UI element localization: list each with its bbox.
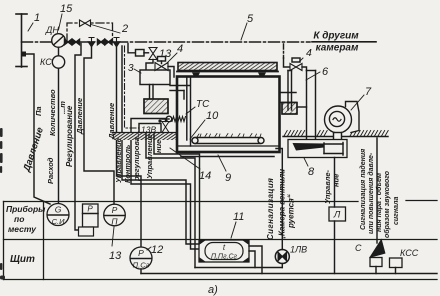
ejector box 8 (288, 140, 347, 158)
valve pair on main line (right) (98, 39, 113, 44)
wire: regulation line x=75 (75, 44, 81, 231)
valve 4 (left, with actuator) (155, 57, 168, 71)
svg-text:Р: Р (112, 205, 118, 215)
svg-text:КС: КС (40, 57, 52, 67)
chamber bottom slab (181, 156, 274, 158)
wire: pressure line to Р/П (84, 46, 114, 204)
siren С (355, 239, 386, 267)
svg-text:Щит: Щит (10, 254, 35, 265)
table frame (4, 201, 438, 280)
instrument Р (recorder block) (79, 204, 99, 236)
svg-text:Расход: Расход (46, 157, 55, 184)
svg-text:П: П (111, 217, 118, 227)
svg-text:Па: Па (34, 106, 43, 116)
wire: monitoring line to recorder (131, 119, 198, 250)
perforated steam pipe 10 (192, 134, 264, 144)
svg-text:Контроль: Контроль (123, 144, 132, 183)
label 4 (left) (167, 43, 183, 63)
svg-text:Сигнализация падения: Сигнализация падения (359, 149, 367, 230)
wire: КС down to G instrument (58, 68, 60, 203)
svg-text:или повышения давле-: или повышения давле- (367, 152, 375, 234)
pipe header 1 (steam supply riser end) (16, 14, 27, 67)
chamber lid (hatched) (177, 63, 278, 72)
svg-text:П,Пг,Сг: П,Пг,Сг (211, 254, 238, 261)
label 9 (218, 155, 231, 184)
label К другим камерам (313, 31, 359, 54)
svg-text:12: 12 (151, 244, 163, 256)
svg-text:Управление: Управление (145, 134, 154, 179)
bypass valve (80, 20, 91, 26)
svg-text:8: 8 (308, 166, 315, 178)
svg-text:ДН: ДН (45, 25, 59, 35)
lid clamp left (192, 73, 200, 77)
svg-text:регулирова...: регулирова... (132, 131, 141, 182)
seal pot left (water filled) (144, 99, 168, 114)
label 14 (170, 148, 211, 182)
label 12 (147, 244, 163, 256)
svg-text:Количество: Количество (48, 89, 57, 136)
impulse pipe chamber to seal pot (170, 86, 190, 100)
label 5 (241, 13, 254, 40)
svg-text:Л: Л (333, 210, 341, 221)
svg-text:образом звукового: образом звукового (383, 170, 391, 238)
wire: header tap to G instrument (22, 52, 51, 205)
starter Л (329, 207, 346, 221)
temperature sensor ТС coil (166, 116, 185, 122)
bottom signal bus (141, 273, 437, 275)
rotated label Управле-ние right (323, 170, 341, 204)
steaming chamber 9 (outer shell) (177, 77, 280, 153)
svg-text:ния пара . объем: ния пара . объем (375, 172, 383, 232)
table row labels (6, 204, 46, 265)
svg-text:Давление: Давление (107, 103, 116, 140)
svg-text:G: G (55, 205, 62, 215)
page-edge artifact marks (cut text at scan margin) (0, 128, 5, 280)
rotated labels right: Сигнализация падения (359, 149, 400, 238)
transmitter КС (40, 47, 65, 68)
wire ejector to siren (376, 138, 377, 274)
svg-text:а): а) (208, 284, 218, 296)
svg-text:3: 3 (128, 63, 134, 74)
label 8 (304, 158, 315, 178)
svg-text:10: 10 (206, 110, 219, 122)
svg-text:1: 1 (34, 12, 40, 24)
svg-text:Сигнализация: Сигнализация (266, 178, 275, 240)
svg-text:4: 4 (306, 47, 312, 59)
svg-text:11: 11 (233, 211, 244, 223)
svg-text:по: по (14, 214, 24, 224)
condensate pot 3 (128, 63, 170, 85)
svg-text:6: 6 (322, 66, 329, 78)
wires from 13В down to recorder (146, 134, 195, 268)
svg-text:7: 7 (365, 86, 372, 98)
label 11 (231, 211, 244, 238)
label 10 (190, 110, 219, 139)
pipe from valve 13 down to pot 3 (146, 60, 153, 71)
svg-text:К другим: К другим (313, 31, 359, 42)
ground hatch under 13В (112, 133, 176, 141)
svg-text:4: 4 (177, 43, 183, 55)
vent standpipe to ejector (297, 67, 316, 140)
bypass line 2 (67, 23, 113, 42)
svg-text:„Камера вентили-: „Камера вентили- (278, 166, 287, 241)
right wall stub pipe to seal pot (280, 93, 296, 103)
pipe valve4 to chamber top (168, 67, 174, 78)
svg-text:сигнала: сигнала (393, 197, 400, 225)
svg-text:ние: ние (332, 174, 341, 187)
svg-text:Р: Р (87, 205, 93, 214)
label 2 (91, 23, 128, 35)
lamp 1ЛВ (275, 245, 307, 264)
fan 7 (325, 102, 360, 134)
dip pipes into pot 6 (288, 71, 292, 111)
svg-text:13: 13 (109, 250, 122, 262)
label 6 (306, 66, 329, 80)
svg-text:9: 9 (225, 172, 231, 184)
relay КСС (390, 248, 419, 268)
valve pair on main line (left) (65, 39, 80, 44)
rotated signal labels left (21, 89, 163, 184)
wire: pressure line to Р/ПС (117, 46, 142, 247)
valve 4 right with actuator (290, 58, 302, 71)
right seal pot 6 vessel (282, 103, 297, 115)
flow transmitter ДН (45, 25, 65, 47)
svg-text:Регулирование: Регулирование (65, 105, 74, 167)
svg-text:П.Сг: П.Сг (133, 261, 150, 270)
wire: control line to recorder (122, 46, 198, 244)
svg-text:5: 5 (247, 13, 254, 25)
label 7 (351, 86, 372, 110)
lid clamp right (258, 73, 266, 77)
svg-text:руется“: руется“ (287, 194, 296, 229)
main steam line (dash-dot) (22, 41, 311, 43)
svg-text:С.И: С.И (52, 217, 66, 226)
wire fan to Л and bus (334, 158, 336, 274)
svg-text:Приборы: Приборы (6, 204, 46, 214)
svg-text:С: С (355, 243, 362, 253)
svg-text:14: 14 (199, 170, 211, 182)
ground line right of chamber (283, 131, 388, 137)
pipes from pot 3 down into seal pot (150, 85, 154, 110)
svg-text:КСС: КСС (400, 248, 419, 258)
label 1 (28, 12, 40, 31)
chamber inner wall (179, 77, 279, 146)
label 4 (right) (299, 47, 312, 62)
svg-text:месту: месту (8, 224, 37, 234)
tap with arrow on main line at x=116.5 (114, 38, 120, 47)
wire КСС to bus (395, 268, 397, 274)
svg-text:ние: ние (154, 140, 163, 153)
svg-text:2: 2 (121, 23, 128, 35)
wires right of recorder (249, 246, 262, 274)
branch pipe from main line to valve 4 right (284, 44, 290, 67)
svg-text:камерам: камерам (316, 43, 359, 54)
svg-text:ТС: ТС (196, 99, 210, 110)
rotated labels middle: Сигнализация Камера вентилируется (266, 166, 296, 241)
capillary dash-dot to 13В (125, 46, 140, 128)
svg-text:15: 15 (60, 3, 73, 15)
instrument Р/П (104, 204, 126, 226)
label ТС (186, 99, 210, 114)
wire Р/ПС to bottom bus (140, 269, 142, 274)
svg-text:1ЛВ: 1ЛВ (290, 245, 307, 255)
label 13 (instrument) (109, 227, 122, 262)
wire lamp up to chamber base (195, 149, 282, 268)
svg-text:Управление: Управление (114, 138, 123, 183)
svg-text:Р: Р (138, 248, 144, 258)
solenoid valve 13В (139, 119, 169, 134)
main line solid segment to other chambers (312, 41, 376, 43)
instrument G/СИ (flow indicator) (47, 204, 69, 227)
recorder 11 (multipoint) (199, 240, 249, 262)
valve 13 (regulating valve with positioner) (128, 44, 172, 61)
wire from solenoid to recorder (154, 134, 200, 239)
svg-text:Давление: Давление (75, 98, 84, 135)
tap with arrow on main line at x=84 (89, 38, 95, 47)
fan shaft down to ejector (334, 133, 342, 141)
label 15 (59, 3, 74, 30)
instrument Р/ПС (130, 247, 152, 270)
